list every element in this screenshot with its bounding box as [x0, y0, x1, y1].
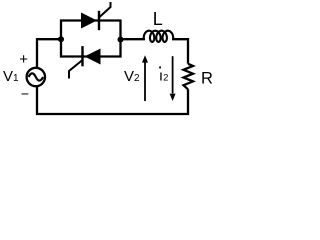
source V1 — [27, 68, 45, 86]
svg-text:+: + — [19, 51, 28, 68]
svg-text:ı2: ı2 — [159, 68, 168, 85]
wire — [172, 39, 188, 64]
arrow i2 (down) — [170, 56, 176, 101]
svg-text:V2: V2 — [124, 68, 140, 85]
svg-text:R: R — [201, 70, 213, 88]
thyristor T1 — [81, 2, 111, 30]
svg-text:V1: V1 — [3, 68, 19, 85]
node left — [58, 36, 64, 42]
node right — [118, 37, 124, 43]
arrow V2 (up) — [142, 55, 148, 101]
svg-text:−: − — [21, 86, 29, 102]
inductor L — [144, 31, 174, 42]
wire — [37, 87, 188, 114]
wire — [37, 39, 61, 68]
resistor R — [184, 64, 194, 90]
sine wave — [29, 73, 44, 80]
wire — [121, 38, 146, 40]
thyristor T2 — [69, 46, 101, 78]
svg-text:L: L — [153, 9, 163, 29]
wire — [61, 21, 121, 57]
